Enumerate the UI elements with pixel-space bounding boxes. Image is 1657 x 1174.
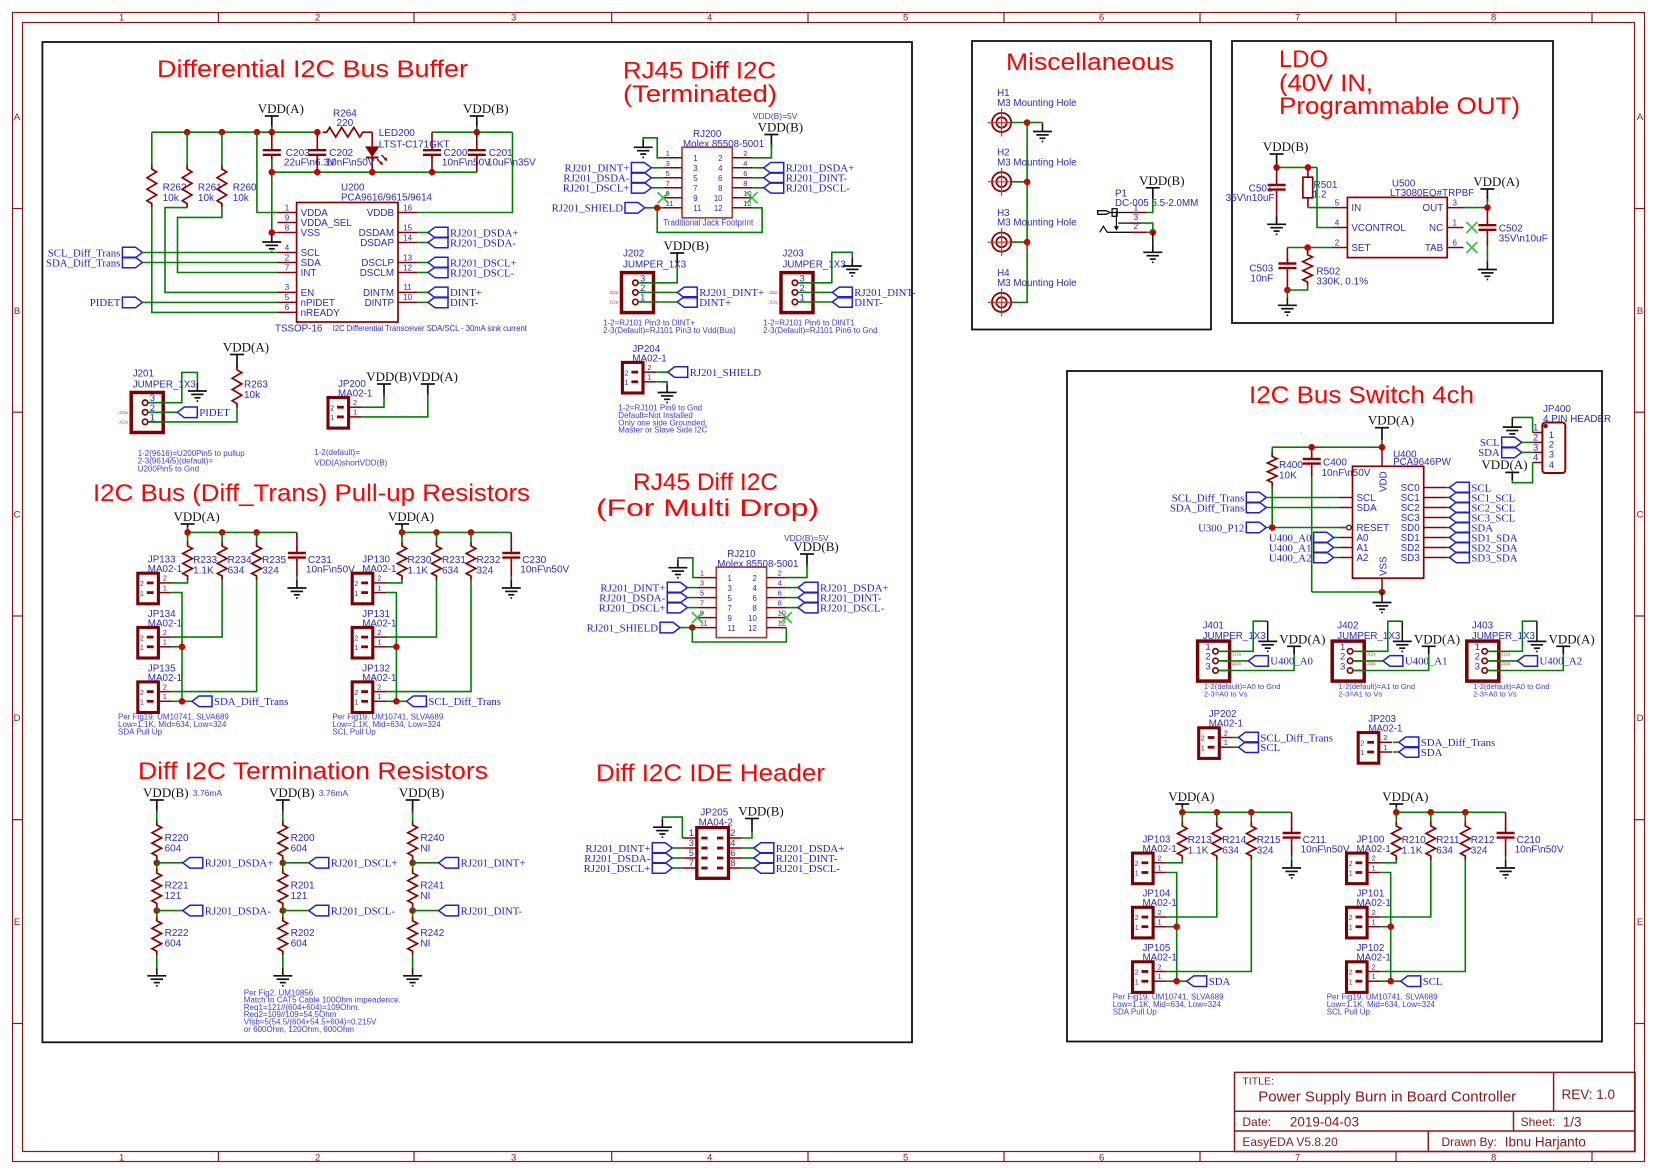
junction xyxy=(1173,923,1180,930)
net flag SDA at JP400 xyxy=(1502,447,1522,458)
svg-text:PCA9646PW: PCA9646PW xyxy=(1393,457,1451,468)
svg-text:12: 12 xyxy=(403,263,412,272)
ground under C502 xyxy=(1486,262,1488,270)
ground at J203 xyxy=(851,258,853,266)
wire SDA_Diff_Trans xyxy=(142,262,277,264)
capacitor C230 xyxy=(510,532,512,548)
svg-text:10nF\n50V: 10nF\n50V xyxy=(442,158,491,169)
junction xyxy=(179,644,186,651)
svg-text:Drawn By:: Drawn By: xyxy=(1442,1135,1497,1149)
svg-text:R215: R215 xyxy=(1257,835,1281,846)
svg-text:E: E xyxy=(14,917,20,928)
svg-text:J202: J202 xyxy=(623,249,644,260)
svg-text:1: 1 xyxy=(1135,871,1139,878)
wire JP mid pin1 xyxy=(1380,926,1390,928)
net flag RJ201_DINT+ at RJ210 xyxy=(667,582,687,593)
resistor R211 xyxy=(1430,812,1432,822)
wire R3 to JP pin2 xyxy=(1380,860,1465,972)
wire R3 to JP pin2 xyxy=(386,580,471,692)
svg-text:NI: NI xyxy=(420,891,430,902)
svg-text:10uF\n35V: 10uF\n35V xyxy=(487,158,536,169)
frame column tick xyxy=(413,12,415,22)
net flag RJ201_DSCL- xyxy=(417,272,428,274)
svg-text:NI: NI xyxy=(420,939,430,950)
svg-text:EasyEDA V5.8.20: EasyEDA V5.8.20 xyxy=(1242,1135,1338,1149)
U400 pin SC0 xyxy=(1424,487,1448,489)
svg-text:R240: R240 xyxy=(420,833,444,844)
wire shield loop RJ210 xyxy=(692,628,786,642)
svg-text:2: 2 xyxy=(1201,736,1205,743)
svg-text:J12a: J12a xyxy=(119,419,129,424)
net flag RJ201_DSCL+ at JP205 xyxy=(652,863,672,874)
net flag RJ201_DINT+ at JP205 xyxy=(652,843,672,854)
frame column tick xyxy=(1591,12,1593,22)
net flag RJ201_DSCL+ xyxy=(283,862,309,864)
U400 pin SD1 xyxy=(1424,537,1448,539)
junction xyxy=(154,860,161,867)
svg-text:7: 7 xyxy=(728,604,732,613)
svg-text:A2: A2 xyxy=(1357,553,1369,564)
svg-text:1: 1 xyxy=(728,574,732,583)
svg-text:1: 1 xyxy=(640,293,645,304)
svg-text:2: 2 xyxy=(377,574,381,583)
capacitor C202 xyxy=(316,132,318,145)
junction xyxy=(1305,164,1312,171)
svg-text:604: 604 xyxy=(291,939,308,950)
svg-text:1: 1 xyxy=(1372,863,1376,872)
no-connect X RJ200 pin10 xyxy=(747,192,758,203)
svg-text:3: 3 xyxy=(1340,661,1345,672)
svg-text:VDD(A): VDD(A) xyxy=(1473,174,1519,189)
svg-text:2-3=A0 to Vs: 2-3=A0 to Vs xyxy=(1473,689,1517,698)
svg-text:1.1K: 1.1K xyxy=(1402,846,1423,857)
wire to gnd P1 xyxy=(1152,232,1154,244)
svg-text:2: 2 xyxy=(1135,970,1139,977)
svg-text:or 600Ohm, 120Ohm, 600Ohm: or 600Ohm, 120Ohm, 600Ohm xyxy=(244,1025,355,1034)
svg-text:LDO: LDO xyxy=(1279,46,1328,73)
U400 pin SC3 xyxy=(1424,517,1448,519)
wire OUT to VDD(A) xyxy=(1464,207,1488,209)
net flag SDA xyxy=(1447,527,1449,529)
svg-text:R241: R241 xyxy=(420,881,444,892)
U200 pin 13 DSCLP xyxy=(398,262,417,264)
wire VSS drop xyxy=(271,160,273,172)
svg-text:RJ201_DSDA-: RJ201_DSDA- xyxy=(450,237,516,249)
svg-text:4: 4 xyxy=(718,164,723,173)
ground at J401 xyxy=(1267,640,1269,642)
wire C400 down to VSS net xyxy=(1311,469,1313,477)
U400 pin A1 xyxy=(1340,547,1353,549)
wire R263 to J201 pin1 xyxy=(148,408,237,422)
svg-text:2: 2 xyxy=(1134,221,1139,231)
svg-text:6: 6 xyxy=(285,303,290,312)
svg-text:nREADY: nREADY xyxy=(301,308,341,319)
wire SCL_Diff_Trans xyxy=(142,252,277,254)
section box: Miscellaneous xyxy=(972,41,1211,330)
svg-text:M3 Mounting Hole: M3 Mounting Hole xyxy=(997,98,1077,109)
resistor R242 xyxy=(412,911,414,917)
wire JP bottom pin1 to flag xyxy=(1380,980,1400,982)
resistor R221 xyxy=(156,863,158,869)
svg-text:SD3: SD3 xyxy=(1401,553,1421,564)
capacitor C502 xyxy=(1486,208,1488,221)
svg-text:220: 220 xyxy=(337,118,354,129)
svg-text:Ibnu Harjanto: Ibnu Harjanto xyxy=(1505,1135,1586,1150)
capacitor C501 xyxy=(1276,167,1278,180)
net flag DINT- xyxy=(417,301,428,303)
svg-text:1: 1 xyxy=(119,13,124,24)
svg-text:4: 4 xyxy=(778,579,782,588)
U500 pin 3 OUT xyxy=(1447,207,1463,209)
wire switch rail xyxy=(1381,441,1383,447)
svg-text:TITLE:: TITLE: xyxy=(1242,1076,1274,1088)
svg-text:6: 6 xyxy=(718,174,722,183)
junction xyxy=(1387,923,1394,930)
net flag PIDET at J201 xyxy=(148,411,177,413)
svg-text:14: 14 xyxy=(403,233,412,242)
junction xyxy=(429,169,436,176)
svg-text:RJ201_DSDA-: RJ201_DSDA- xyxy=(205,905,271,917)
svg-text:634: 634 xyxy=(1436,846,1453,857)
svg-text:3: 3 xyxy=(700,579,704,588)
svg-text:RJ201_DSCL+: RJ201_DSCL+ xyxy=(584,863,651,875)
svg-text:2: 2 xyxy=(315,1153,320,1164)
svg-text:C: C xyxy=(14,510,21,521)
svg-text:3: 3 xyxy=(285,283,290,292)
ground term xyxy=(282,968,284,976)
svg-text:2: 2 xyxy=(1335,238,1340,247)
frame column tick xyxy=(611,12,613,22)
svg-text:10: 10 xyxy=(748,614,757,623)
resistor R262 xyxy=(147,165,157,208)
junction xyxy=(409,907,416,914)
junction xyxy=(1308,444,1315,451)
net flag SD3_SDA xyxy=(1447,557,1449,559)
svg-text:604: 604 xyxy=(291,844,308,855)
resistor R502 xyxy=(1307,248,1309,253)
wire RJ210 pin1 gnd xyxy=(678,558,698,578)
resistor R202 xyxy=(282,911,284,917)
svg-text:R232: R232 xyxy=(477,555,501,566)
net flag RJ201_DSCL- right RJ200 xyxy=(752,187,764,189)
resistor R400 xyxy=(1271,447,1273,456)
svg-text:2: 2 xyxy=(285,253,290,262)
svg-text:6: 6 xyxy=(752,594,756,603)
svg-text:RJ201_DSCL+: RJ201_DSCL+ xyxy=(599,602,666,614)
net flag RJ201_DSDA+ right RJ210 xyxy=(786,587,798,589)
op-amp U200 PCA9616 xyxy=(297,203,398,323)
svg-text:1: 1 xyxy=(377,583,381,592)
resistor R263 xyxy=(232,366,242,408)
junction xyxy=(1173,978,1180,985)
svg-text:SDA: SDA xyxy=(1357,503,1378,514)
svg-text:Programmable OUT): Programmable OUT) xyxy=(1279,93,1520,120)
svg-text:10k: 10k xyxy=(244,390,261,401)
svg-text:1: 1 xyxy=(140,700,144,707)
svg-text:5: 5 xyxy=(689,848,694,858)
svg-text:1: 1 xyxy=(1349,871,1353,878)
svg-text:J12a: J12a xyxy=(1367,652,1377,657)
net flag SCL xyxy=(1401,976,1421,987)
svg-text:VDD(A): VDD(A) xyxy=(1414,631,1460,646)
svg-text:5: 5 xyxy=(666,169,670,178)
junction xyxy=(280,860,287,867)
svg-text:SCL: SCL xyxy=(1260,742,1280,754)
svg-text:R202: R202 xyxy=(291,928,315,939)
svg-text:6: 6 xyxy=(1099,13,1104,24)
svg-text:2: 2 xyxy=(730,828,735,838)
svg-text:3.76mA: 3.76mA xyxy=(193,788,223,798)
svg-text:6: 6 xyxy=(778,589,782,598)
net flag RJ201_DSDA- xyxy=(157,910,183,912)
svg-text:11: 11 xyxy=(693,204,701,213)
svg-text:1: 1 xyxy=(140,591,144,598)
svg-text:8: 8 xyxy=(752,604,756,613)
svg-text:SCL Pull Up: SCL Pull Up xyxy=(332,728,376,737)
svg-text:2019-04-03: 2019-04-03 xyxy=(1290,1115,1359,1130)
svg-text:10: 10 xyxy=(714,194,723,203)
resistor R220 xyxy=(152,821,162,860)
svg-text:2: 2 xyxy=(1135,915,1139,922)
net flag RJ201_DINT- right JP205 xyxy=(742,857,754,859)
JP400 pin 2 xyxy=(1533,441,1543,443)
svg-text:RJ201_SHIELD: RJ201_SHIELD xyxy=(552,203,624,215)
net flag RJ201_DSDA+ xyxy=(417,232,428,234)
svg-text:LTST-C171GKT: LTST-C171GKT xyxy=(379,139,450,150)
svg-text:2: 2 xyxy=(1372,854,1376,863)
resistor R240 xyxy=(408,821,418,860)
svg-text:2: 2 xyxy=(1383,733,1387,742)
svg-text:7: 7 xyxy=(1295,1153,1300,1164)
svg-text:Molex 85508-5001: Molex 85508-5001 xyxy=(683,139,764,150)
junction xyxy=(1284,287,1291,294)
svg-text:R211: R211 xyxy=(1436,835,1460,846)
svg-text:(Terminated): (Terminated) xyxy=(623,81,777,108)
net flag RJ201_DINT+ xyxy=(413,862,439,864)
svg-text:1: 1 xyxy=(330,415,334,422)
svg-text:4: 4 xyxy=(1335,218,1340,227)
svg-text:2: 2 xyxy=(354,581,358,588)
svg-text:7: 7 xyxy=(689,858,694,868)
net flag SD1_SDA xyxy=(1447,537,1449,539)
net flag SCL xyxy=(1447,487,1449,489)
ground at RJ200 pin1 xyxy=(642,139,644,147)
ground at J402 xyxy=(1401,640,1403,642)
resistor R212 xyxy=(1464,812,1466,822)
U400 pin SDA xyxy=(1340,507,1353,509)
svg-text:1: 1 xyxy=(666,149,670,158)
svg-text:VDD(B): VDD(B) xyxy=(269,785,315,800)
svg-text:2: 2 xyxy=(354,635,358,642)
svg-text:J23a: J23a xyxy=(769,290,779,295)
no-connect X RJ210 pin10 xyxy=(781,612,792,623)
P1 pin 1 xyxy=(1110,212,1131,214)
svg-text:1: 1 xyxy=(1158,972,1162,981)
svg-text:I2C Bus Switch 4ch: I2C Bus Switch 4ch xyxy=(1249,382,1474,409)
svg-text:11: 11 xyxy=(403,283,412,292)
svg-text:2: 2 xyxy=(1158,908,1162,917)
U400 pin A2 xyxy=(1340,557,1353,559)
svg-text:VDD(B): VDD(B) xyxy=(738,804,784,819)
svg-text:1: 1 xyxy=(163,583,167,592)
net flag RJ201_DSDA- at JP205 xyxy=(652,853,672,864)
resistor R214 xyxy=(1216,812,1218,822)
net flag RJ201_DSDA+ right RJ200 xyxy=(752,167,764,169)
svg-text:1: 1 xyxy=(693,154,697,163)
svg-text:4: 4 xyxy=(730,838,735,848)
svg-text:1: 1 xyxy=(800,293,805,304)
net flag RJ201_DSDA- at RJ210 xyxy=(667,592,687,603)
wire trunk pin1s xyxy=(172,593,182,702)
svg-text:Power Supply Burn in Board Con: Power Supply Burn in Board Controller xyxy=(1258,1089,1516,1106)
svg-text:VDDB: VDDB xyxy=(367,208,395,219)
svg-text:J23a: J23a xyxy=(1232,661,1242,666)
wire pull-up rail xyxy=(1395,807,1397,812)
svg-text:8: 8 xyxy=(718,184,722,193)
U200 pin 5 nPIDET xyxy=(278,301,297,303)
U500 pin 5 IN xyxy=(1333,207,1348,209)
svg-text:2: 2 xyxy=(718,154,722,163)
svg-text:SCL Pull Up: SCL Pull Up xyxy=(1327,1008,1371,1017)
junction xyxy=(1379,444,1386,451)
svg-text:1: 1 xyxy=(1158,918,1162,927)
wire JP200 pin2 to VDD(B) xyxy=(362,394,384,407)
net flag SCL_Diff_Trans xyxy=(406,696,426,707)
svg-text:2: 2 xyxy=(778,569,782,578)
P1 plug tip symbol xyxy=(1098,211,1110,215)
svg-text:13: 13 xyxy=(403,253,412,262)
resistor R232 xyxy=(470,532,472,542)
capacitor C211 xyxy=(1291,812,1293,828)
svg-text:R214: R214 xyxy=(1222,835,1246,846)
net flag SD2_SDA xyxy=(1447,547,1449,549)
svg-text:J12a: J12a xyxy=(769,300,779,305)
wire pull-up rail xyxy=(1181,807,1183,812)
svg-text:324: 324 xyxy=(1471,846,1488,857)
JP205 pins row 3 xyxy=(701,857,707,860)
junction xyxy=(393,698,400,705)
wire shield loop RJ200 xyxy=(657,208,762,233)
wire pin1 to gnd xyxy=(1353,621,1403,651)
svg-text:4: 4 xyxy=(752,584,757,593)
svg-text:1: 1 xyxy=(1360,750,1364,757)
svg-text:JUMPER_1X3: JUMPER_1X3 xyxy=(783,260,847,271)
ground at H1 xyxy=(1042,124,1044,132)
capacitor C400 xyxy=(1311,447,1313,454)
wire trunk pin1s xyxy=(1380,873,1390,982)
wire to ground xyxy=(156,955,158,968)
wire mounting holes trunk xyxy=(1011,123,1027,303)
wire R261 to EN xyxy=(165,208,278,293)
wire JP mid pin1 xyxy=(1166,926,1176,928)
ground at P1 xyxy=(1152,244,1154,252)
svg-text:RJ201_SHIELD: RJ201_SHIELD xyxy=(690,367,762,379)
junction xyxy=(1024,179,1031,186)
svg-text:634: 634 xyxy=(228,566,245,577)
junction xyxy=(253,529,260,536)
net flag U400_A1 xyxy=(1353,660,1383,662)
wire pin3 to VDD xyxy=(1218,654,1294,670)
svg-text:I2C Differential Transceiver S: I2C Differential Transceiver SDA/SCL - 3… xyxy=(333,324,528,333)
junction xyxy=(280,907,287,914)
svg-text:VDD(B): VDD(B) xyxy=(1263,139,1309,154)
net flag RJ201_SHIELD at RJ210 xyxy=(660,622,680,633)
wire R264 to LED xyxy=(367,131,372,133)
wire RJ200 pin2 VDD xyxy=(752,145,771,158)
svg-text:SDA: SDA xyxy=(1421,747,1443,759)
svg-text:J12a: J12a xyxy=(1232,652,1242,657)
JP400 pin 1 xyxy=(1533,432,1543,434)
svg-text:11: 11 xyxy=(666,199,674,208)
svg-text:8: 8 xyxy=(1491,13,1496,24)
svg-text:R220: R220 xyxy=(165,833,189,844)
JP205 pins row 2 xyxy=(701,847,707,850)
resistor R200 xyxy=(278,821,288,860)
frame column tick xyxy=(807,12,809,22)
junction xyxy=(269,129,276,136)
svg-text:Traditional Jack Footprint: Traditional Jack Footprint xyxy=(663,217,754,227)
junction xyxy=(254,129,261,136)
svg-text:10nF\n50V: 10nF\n50V xyxy=(326,158,375,169)
U400 pin SD2 xyxy=(1424,547,1448,549)
wire R3 to JP pin2 xyxy=(172,580,257,692)
svg-text:2: 2 xyxy=(1360,741,1364,748)
U200 pin 4 SCL xyxy=(278,252,297,254)
wire JP bottom pin1 to flag xyxy=(172,700,192,702)
svg-text:R400: R400 xyxy=(1279,460,1303,471)
resistor R233 xyxy=(187,532,189,542)
wire JP mid pin1 xyxy=(172,646,182,648)
wire top rail right xyxy=(432,131,513,133)
wire R260 to INT xyxy=(178,208,278,273)
svg-text:2: 2 xyxy=(140,635,144,642)
net flag RJ201_DSDA+ right JP205 xyxy=(742,847,754,849)
net flag RJ201_DSDA+ xyxy=(157,862,183,864)
net flag RJ201_DSCL- right JP205 xyxy=(742,867,754,869)
wire RJ200 pin1 gnd xyxy=(643,138,663,158)
frame row tick xyxy=(12,819,22,821)
svg-text:10nF\n50V: 10nF\n50V xyxy=(1301,845,1350,856)
svg-text:1: 1 xyxy=(377,638,381,647)
svg-text:J23a: J23a xyxy=(1501,661,1511,666)
net flag RJ201_SHIELD at JP204 xyxy=(656,371,668,373)
no-connect X U500 NC xyxy=(1466,222,1477,233)
svg-text:3: 3 xyxy=(1452,198,1457,207)
U500 pin 6 TAB xyxy=(1447,247,1463,249)
junction U400 VSS xyxy=(1379,589,1386,596)
wire VDDB net xyxy=(417,132,512,212)
svg-text:2: 2 xyxy=(1372,962,1376,971)
svg-text:2: 2 xyxy=(1349,861,1353,868)
capacitor C200 xyxy=(431,132,433,145)
wire SET net xyxy=(1287,247,1332,249)
svg-text:DC-005 5.5-2.0MM: DC-005 5.5-2.0MM xyxy=(1115,198,1198,209)
svg-text:I2C Bus (Diff_Trans) Pull-up R: I2C Bus (Diff_Trans) Pull-up Resistors xyxy=(93,480,530,507)
JP205 pins row 1 xyxy=(701,837,707,840)
U200 pin 1 VDDA xyxy=(278,212,297,214)
wire R400 to RESET xyxy=(1271,487,1273,528)
capacitor C201 xyxy=(476,132,478,145)
wire C503 to gnd xyxy=(1286,290,1288,297)
svg-text:R201: R201 xyxy=(291,881,315,892)
svg-text:J12a: J12a xyxy=(609,300,619,305)
svg-text:VDD(A): VDD(A) xyxy=(1279,631,1325,646)
svg-text:121: 121 xyxy=(291,891,308,902)
wire R262 to nREADY xyxy=(152,208,278,313)
net flag SC3_SCL xyxy=(1447,517,1449,519)
net flag RJ201_DSDA- xyxy=(417,242,428,244)
U200 pin 10 DINTP xyxy=(398,301,417,303)
